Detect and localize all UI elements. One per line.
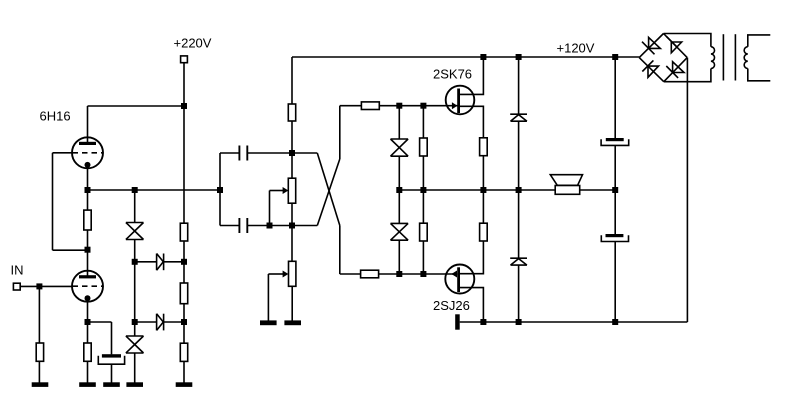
wire cathode resistor to ground [87, 361, 89, 383]
wire pot1 wiper vertical [269, 191, 271, 226]
triode V1b 6H16 envelope [72, 271, 103, 302]
ground under cathode resistor [79, 382, 96, 387]
wire diode column middle [518, 121, 520, 258]
wire Q2 drain lead [460, 288, 483, 322]
resistor bias upper (423) [420, 138, 428, 156]
svg-text:6H16: 6H16 [40, 109, 71, 124]
wire node to pot1 top [291, 153, 293, 178]
wire plate resistor to node [291, 121, 293, 153]
wire cross diagonal B (lower to upper gate) [317, 159, 340, 226]
svg-text:2SK76: 2SK76 [433, 67, 472, 82]
wire bypass cap to ground [111, 364, 113, 383]
resistor driver plate load [288, 104, 295, 121]
node V1a cathode junction [85, 187, 91, 193]
ground under +220V column [176, 382, 193, 387]
wire diode chain column lower [134, 322, 136, 336]
wire feedback vertical run [52, 153, 54, 250]
node junction at +220V column and plate wire [181, 103, 187, 109]
triode V1b grid (dashed) [73, 285, 103, 287]
svg-text:2SJ26: 2SJ26 [433, 298, 470, 313]
resistor R2 on +220V column [180, 283, 187, 304]
capacitor CE1 bracket [601, 139, 629, 145]
node lower coupling junction [289, 223, 295, 229]
node K76 gate zener junction [396, 103, 402, 109]
wire diode column top (518) [518, 57, 520, 114]
node output rail at 483 [480, 187, 486, 193]
triode V1a cathode dot [85, 162, 91, 168]
ground under pot2 wiper [260, 320, 277, 325]
wire V1a cathode to resistor [87, 190, 89, 210]
node pot wiper tie junction [267, 223, 273, 229]
node bottom rail at 518 [516, 319, 522, 325]
wire to C2 left plate [220, 225, 239, 227]
wire diode chain column upper [134, 190, 136, 223]
diode D4 (vertical, pointing up) [510, 258, 527, 265]
wire Q2 gate stub [452, 273, 458, 275]
wire 2SK76 gate run [340, 105, 459, 107]
capacitor C1 coupling (upper) [239, 146, 247, 161]
capacitor CE1 plate [606, 138, 624, 141]
wire Q1 drain lead [460, 57, 483, 94]
wire bridge right corner down to bottom rail [686, 58, 688, 322]
node D2 to +220V column junction [181, 319, 187, 325]
transformer T1 core [723, 34, 735, 80]
resistor cathode bias [84, 343, 91, 361]
wire +220V column between R1 and R2 [183, 241, 185, 283]
node output rail at 399 [396, 187, 402, 193]
transistor Q2 channel bar [457, 267, 460, 292]
wire Q2 source resistor to output rail [482, 190, 484, 223]
wire Z4 to 2SJ26 gate run [398, 240, 400, 274]
wire Z2 to ground [134, 353, 136, 383]
resistor interstage (88 column) [84, 210, 91, 230]
wire C2 right plate run [247, 225, 317, 227]
node output rail at 615 [612, 187, 618, 193]
node driver plate junction [289, 150, 295, 156]
wire +220V column between R2 and R3 [183, 304, 185, 344]
potentiometer pot1 body [288, 178, 295, 203]
wire D1 cathode lead [164, 261, 184, 263]
diode D3 (vertical, pointing up) [510, 114, 527, 121]
zener pair Z4 (bowtie) [391, 223, 409, 240]
wire Q2 source lead [460, 241, 483, 274]
wire pot2 wiper down to ground [267, 274, 269, 321]
transformer T1 secondary coil [744, 47, 748, 69]
zener pair Z1 (bowtie) [126, 223, 144, 240]
resistor 2SK76 gate stopper [361, 102, 379, 110]
ground under grid resistor [32, 382, 49, 387]
zener pair Z2 (bowtie) [126, 336, 144, 353]
wire cross diagonal A vertical tail [339, 226, 341, 275]
wire cathode rail y=190 [88, 189, 221, 191]
wire resistor to V1b plate node [87, 230, 89, 250]
wire bridge bottom corner to transformer primary [664, 69, 711, 82]
wire bypass cap top lead [111, 322, 113, 354]
node output rail at 423 [420, 187, 426, 193]
wire plate of upper triode to +220V column [88, 105, 185, 107]
resistor R1 on +220V column [180, 223, 187, 241]
node +120V rail at 615 [612, 54, 618, 60]
node K76 gate resistor junction [420, 103, 426, 109]
wire D2 cathode lead [164, 321, 184, 323]
wire Q1 source lead [460, 106, 483, 138]
node bottom rail at 615 [612, 319, 618, 325]
node diode chain top junction [132, 187, 138, 193]
resistor R3 on +220V column [180, 343, 187, 361]
node J26 gate resistor junction [420, 271, 426, 277]
triode V1a grid (dashed) [73, 152, 103, 154]
ground bar at bottom rail (sideways) [455, 314, 460, 329]
transformer T1 primary coil [711, 47, 715, 69]
wire Z3 to output rail [398, 156, 400, 223]
wire cross run upper horizontal [292, 152, 317, 154]
resistor grid leak [36, 343, 43, 361]
node Q1 drain to +120V rail junction [480, 54, 486, 60]
diode bridge upper-left [642, 37, 660, 54]
zener pair Z3 (bowtie) [391, 139, 409, 156]
wire Q1 source resistor to output rail [482, 156, 484, 190]
wire 2SJ26 gate run [340, 273, 452, 275]
wire V1b cathode lead [87, 301, 89, 322]
wire lower node to pot2 top [291, 226, 293, 262]
svg-text:+120V: +120V [557, 41, 595, 56]
wire feedback to V1b plate node [53, 249, 88, 251]
wire cathode node to bypass cap [88, 321, 112, 323]
wire V1a cathode lead [87, 168, 89, 191]
wire plate lead upper triode [87, 106, 89, 143]
wire output rail y=190 [399, 189, 615, 191]
transistor Q1 2SK76 envelope [446, 86, 475, 115]
node diode chain lower junction [132, 319, 138, 325]
triode V1a 6H16 envelope [72, 137, 103, 168]
node D1 to +220V column junction [181, 259, 187, 265]
wire D1 anode lead [135, 261, 157, 263]
ground under bypass cap [103, 382, 120, 387]
diode D2 (horizontal) [157, 314, 164, 331]
capacitor C2 coupling (lower) [239, 218, 247, 233]
wire pot1 bottom to lower node [291, 203, 293, 225]
node bottom rail at 483 [480, 319, 486, 325]
wire V1b plate lead [87, 250, 89, 276]
wire zener column upper (399) [398, 106, 400, 139]
diode bridge lower-right [666, 62, 684, 78]
speaker body [555, 186, 580, 195]
wire CE1 to output rail [614, 145, 616, 190]
node input junction [36, 283, 42, 289]
wire pot2 bottom to ground [291, 286, 293, 320]
wire +220V rail vertical [183, 63, 185, 224]
wire diode chain column middle [134, 240, 136, 323]
capacitor CE2 bracket [601, 235, 628, 241]
wire secondary bottom lead [748, 69, 771, 81]
wire cross diagonal A (upper to lower gate) [317, 153, 340, 226]
node V1b plate junction [85, 247, 91, 253]
terminal +220V [181, 56, 188, 63]
node diode D1 anode junction [132, 259, 138, 265]
wire V1b cathode to resistor [87, 322, 89, 343]
capacitor cathode bypass bracket [98, 356, 124, 365]
ground under pot2 [284, 320, 301, 325]
wire 423 column to output rail [422, 156, 424, 223]
transistor Q2 2SJ26 envelope [445, 265, 474, 294]
capacitor CE2 plate [606, 234, 624, 237]
capacitor cathode bypass plate [102, 354, 121, 357]
resistor 2SJ26 gate stopper [361, 270, 379, 278]
wire C1 right plate to node [247, 152, 292, 154]
speaker cone [550, 175, 582, 186]
diode bridge lower-left [642, 60, 658, 77]
wire bottom rail y=322 [460, 321, 688, 323]
wire bridge top corner to transformer primary [664, 34, 711, 47]
ground under diode chain [126, 382, 143, 387]
wire grid resistor to ground [38, 361, 40, 383]
wire secondary top lead [748, 35, 771, 47]
wire pot1 wiper horizontal [270, 190, 284, 192]
wire D2 anode lead [135, 321, 157, 323]
svg-text:IN: IN [11, 263, 24, 278]
wire bias resistor column upper (423) [422, 106, 424, 138]
wire CE2 to bottom rail [614, 242, 616, 323]
node diode column at +120V rail [516, 54, 522, 60]
resistor Q1 source [480, 138, 488, 156]
bridge rectifier diamond [639, 34, 687, 82]
terminal IN [13, 283, 20, 290]
arrow pot1 wiper [283, 187, 289, 194]
triode V1b plate bar [79, 275, 96, 278]
potentiometer pot2 body [289, 261, 296, 286]
wire IN to V1b grid [20, 285, 72, 287]
diode D1 (horizontal) [157, 254, 164, 271]
triode V1b cathode dot [85, 295, 91, 301]
wire 423 column to J26 gate run [422, 241, 424, 274]
wire top rail corner down to plate resistor [291, 57, 293, 104]
wire V1a grid to left feedback run [53, 152, 73, 154]
node V1b cathode junction [85, 319, 91, 325]
arrow Q1 gate (pointing right) [452, 102, 458, 109]
wire input junction to grid resistor [38, 286, 40, 343]
wire coupling column vertical [219, 153, 221, 226]
wire cross diagonal B vertical tail [339, 106, 341, 159]
resistor bias lower (423) [420, 223, 428, 241]
wire output rail to CE2 [614, 190, 616, 234]
triode V1a plate bar [79, 142, 96, 145]
diode bridge upper-right [666, 36, 681, 53]
wire +120V top rail [292, 56, 639, 58]
wire filter cap column upper (615) [614, 57, 616, 138]
arrow Q2 gate (pointing left) [451, 271, 457, 278]
wire R3 to ground [183, 361, 185, 383]
wire to C1 left plate [220, 152, 239, 154]
wire pot2 wiper horizontal [268, 273, 283, 275]
wire diode column bottom [518, 265, 520, 322]
node output rail at 518 [516, 187, 522, 193]
arrow pot2 wiper [283, 271, 289, 278]
node J26 gate zener junction [396, 271, 402, 277]
svg-text:+220V: +220V [174, 36, 212, 51]
node coupling column junction [217, 187, 223, 193]
resistor Q2 source [480, 223, 488, 241]
transistor Q1 channel bar [457, 89, 460, 114]
